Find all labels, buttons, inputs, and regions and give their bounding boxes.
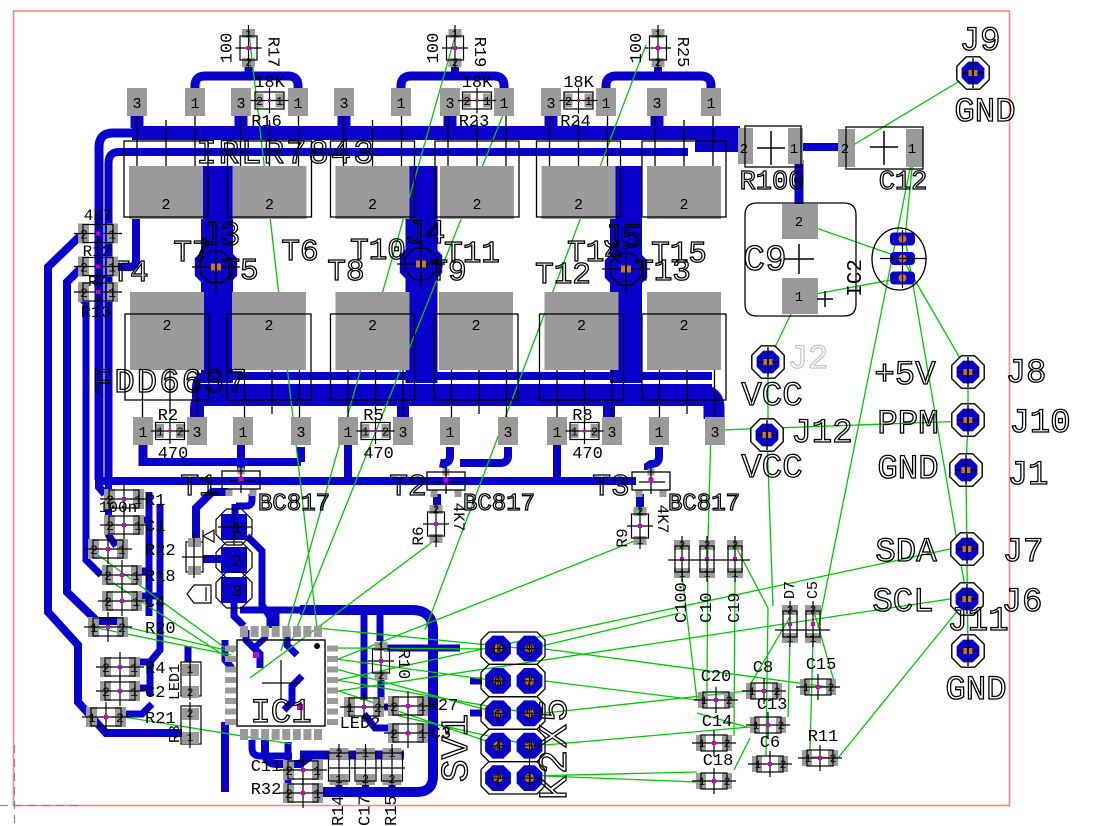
svg-text:C2: C2	[145, 684, 165, 703]
svg-text:1: 1	[346, 701, 354, 716]
resistor R25 (100)	[645, 25, 671, 71]
svg-text:1: 1	[654, 425, 663, 442]
svg-text:PPM: PPM	[877, 406, 938, 444]
wire: stub pad3@301 down	[297, 447, 305, 462]
svg-text:2: 2	[787, 606, 794, 618]
svg-text:1: 1	[130, 661, 138, 676]
svg-text:3: 3	[652, 96, 661, 113]
component R18	[98, 560, 146, 590]
svg-text:R15: R15	[383, 795, 402, 826]
wire: cornerB tail to R22	[109, 480, 117, 546]
svg-text:6: 6	[494, 707, 502, 723]
svg-text:18K: 18K	[254, 74, 285, 93]
transistor tab/outline row2 #3	[331, 292, 415, 400]
wire: R100 to C12	[800, 143, 840, 151]
svg-text:R11: R11	[808, 728, 839, 747]
svg-text:3: 3	[503, 425, 512, 442]
svg-text:1: 1	[293, 96, 302, 113]
svg-text:2: 2	[80, 228, 88, 243]
svg-text:LED1: LED1	[167, 664, 184, 700]
wire: stub pad1@450 to T2	[443, 447, 450, 468]
labels R2 / 470	[158, 407, 189, 464]
wire: R100 pad1 down to C9	[795, 160, 804, 206]
svg-text:4K7: 4K7	[84, 207, 113, 225]
svg-text:2: 2	[335, 747, 342, 761]
resistor R9 (4K7)	[627, 503, 653, 549]
svg-text:2: 2	[102, 661, 110, 676]
wire: left diag 2	[67, 269, 126, 621]
transistor tab/outline row2 #5	[540, 292, 624, 400]
svg-text:18K: 18K	[563, 74, 594, 93]
component R1	[100, 484, 148, 514]
svg-text:1: 1	[699, 777, 706, 789]
svg-text:2: 2	[161, 197, 170, 214]
svg-text:1: 1	[552, 425, 561, 442]
svg-text:1: 1	[795, 290, 803, 306]
svg-text:R24: R24	[560, 113, 591, 132]
wire: stub pad1@659 elbow	[648, 447, 659, 470]
svg-text:1: 1	[132, 595, 140, 610]
svg-text:5: 5	[525, 707, 533, 723]
svg-text:2: 2	[740, 142, 748, 158]
svg-text:J12: J12	[791, 415, 852, 453]
svg-text:2: 2	[264, 318, 273, 335]
resistor R7b	[74, 252, 122, 282]
IC IC1	[225, 626, 338, 740]
svg-text:1: 1	[245, 29, 252, 41]
svg-text:2: 2	[463, 95, 470, 109]
svg-text:J7: J7	[1003, 534, 1044, 572]
via J8	[952, 356, 984, 388]
wire: stub pad3@508 down-left	[460, 447, 508, 463]
svg-text:IC2: IC2	[845, 259, 868, 297]
svg-text:SV1: SV1	[436, 714, 479, 782]
transistor tab/outline row2 #2	[227, 292, 311, 400]
wire: big loop right of IC1	[300, 610, 433, 792]
svg-text:10: 10	[490, 643, 507, 659]
svg-text:2: 2	[810, 606, 817, 618]
svg-text:100: 100	[425, 33, 444, 64]
svg-text:2: 2	[256, 95, 263, 109]
svg-text:3: 3	[236, 96, 245, 113]
svg-text:2: 2	[104, 595, 112, 610]
wire: gate stub into tab1	[118, 219, 136, 267]
svg-text:J1: J1	[1008, 457, 1049, 495]
via J10	[952, 404, 984, 436]
svg-text:2: 2	[655, 58, 662, 70]
resistor R27	[384, 691, 432, 721]
svg-text:2: 2	[116, 711, 124, 726]
svg-text:1: 1	[908, 142, 916, 158]
transistor tab/outline row1 #2	[228, 141, 312, 219]
svg-text:1: 1	[132, 569, 140, 584]
svg-text:3: 3	[296, 425, 305, 442]
transistor bottom pin pads	[133, 417, 153, 445]
svg-text:1: 1	[787, 634, 794, 646]
component C13	[746, 712, 790, 738]
svg-text:R10: R10	[393, 649, 412, 680]
svg-text:1: 1	[749, 687, 756, 699]
svg-text:C8: C8	[753, 659, 773, 678]
svg-text:J4: J4	[405, 216, 446, 254]
svg-text:3: 3	[339, 96, 348, 113]
svg-text:1: 1	[418, 727, 426, 742]
svg-text:1: 1	[805, 754, 812, 766]
LED LED1	[181, 658, 201, 700]
connector SV1 (K2X5)	[481, 632, 545, 794]
svg-text:2: 2	[472, 197, 481, 214]
svg-text:1: 1	[378, 642, 385, 654]
capacitor C100	[674, 536, 690, 582]
svg-text:C4: C4	[145, 594, 165, 613]
wire: IC1 top horizontal	[240, 607, 360, 614]
capacitor C11	[279, 755, 327, 785]
component C8	[742, 678, 786, 704]
svg-text:2: 2	[80, 261, 88, 276]
svg-text:GND: GND	[945, 672, 1006, 710]
svg-text:1: 1	[130, 685, 138, 700]
svg-text:1: 1	[134, 519, 142, 534]
svg-text:4K7: 4K7	[449, 503, 467, 532]
crossline D7 C5	[775, 629, 830, 631]
capacitor C12	[838, 127, 923, 169]
labels R5 / 470	[363, 407, 394, 464]
svg-text:2: 2	[565, 95, 572, 109]
wire: IC1 bottom S traces	[252, 740, 292, 756]
svg-text:2: 2	[102, 685, 110, 700]
svg-text:GND: GND	[954, 94, 1015, 132]
transistor tab/outline row1 #4	[435, 141, 519, 219]
transistor T2 (BC817)	[427, 468, 465, 497]
component R14	[329, 744, 350, 790]
svg-text:3: 3	[192, 425, 201, 442]
svg-text:1: 1	[108, 228, 116, 243]
via J1	[950, 454, 982, 486]
svg-text:2: 2	[104, 569, 112, 584]
wire: header stubs	[470, 678, 482, 685]
via J6	[951, 583, 983, 615]
svg-text:VCC: VCC	[741, 450, 802, 488]
svg-text:1: 1	[343, 425, 352, 442]
svg-text:T5: T5	[221, 254, 258, 289]
wire: R10 top link	[384, 645, 460, 652]
svg-text:1: 1	[313, 787, 321, 802]
svg-text:1: 1	[418, 700, 426, 715]
wire: pad3 stub to IC1	[234, 602, 244, 626]
svg-text:2: 2	[726, 696, 733, 708]
svg-text:2: 2	[285, 764, 293, 779]
svg-text:LED2: LED2	[340, 715, 381, 734]
wire: resistor feed stub	[654, 62, 662, 78]
svg-text:T15: T15	[651, 237, 707, 272]
component C4	[98, 586, 146, 616]
svg-text:470: 470	[158, 445, 189, 464]
capacitor C3	[384, 718, 432, 748]
svg-text:2: 2	[828, 683, 835, 695]
svg-text:1: 1	[190, 96, 199, 113]
svg-text:2: 2	[433, 505, 440, 517]
wire: R10 bottom to LED2	[378, 676, 385, 700]
component C20	[694, 687, 738, 713]
svg-text:T2: T2	[389, 470, 426, 505]
svg-text:T7: T7	[173, 236, 210, 271]
resistor R10	[368, 638, 394, 684]
svg-text:1: 1	[601, 96, 610, 113]
svg-text:2: 2	[362, 773, 369, 787]
transistor tab/outline row2 #1	[125, 292, 209, 400]
svg-text:1: 1	[483, 95, 490, 109]
svg-text:C14: C14	[702, 713, 733, 732]
svg-text:1: 1	[452, 29, 459, 41]
svg-text:T12: T12	[535, 258, 591, 293]
component R22	[84, 534, 132, 564]
svg-text:R9: R9	[614, 528, 632, 547]
via J3	[192, 243, 240, 291]
svg-text:2: 2	[382, 426, 389, 440]
svg-text:C17: C17	[357, 795, 376, 826]
svg-text:K2X5: K2X5	[534, 696, 579, 800]
resistor R2 (470)	[151, 418, 189, 444]
svg-text:C18: C18	[703, 752, 734, 771]
transistor tab/outline row1 #5	[537, 141, 621, 219]
svg-text:T1: T1	[180, 470, 217, 505]
svg-text:R3: R3	[167, 725, 184, 743]
svg-text:2: 2	[452, 58, 459, 70]
via J4	[397, 240, 445, 288]
svg-text:R5: R5	[363, 407, 383, 426]
svg-text:2: 2	[378, 671, 385, 683]
svg-text:2: 2	[577, 318, 586, 335]
svg-text:1: 1	[118, 543, 126, 558]
transistor tab/outline row1 #3	[331, 141, 415, 219]
component R15	[382, 744, 403, 790]
wire: drain stub to bus	[444, 110, 457, 128]
crossline C100 row	[668, 559, 750, 561]
pin lines row1	[137, 116, 713, 166]
wire: T3 base stub to R9	[636, 494, 644, 508]
component R4	[96, 652, 144, 682]
via J12	[751, 419, 783, 451]
svg-text:D7: D7	[782, 581, 799, 599]
svg-text:C11: C11	[251, 758, 282, 777]
component R20	[84, 612, 132, 642]
wire: drain stub to bus	[338, 110, 351, 128]
wire: center source column	[610, 166, 642, 383]
svg-text:1: 1	[362, 426, 369, 440]
svg-text:2: 2	[704, 541, 711, 553]
labels R8 / 470	[572, 407, 603, 464]
svg-text:C19: C19	[726, 592, 745, 623]
capacitor C5	[805, 601, 821, 647]
svg-text:FDD6637: FDD6637	[92, 365, 249, 403]
svg-text:R32: R32	[251, 781, 282, 800]
svg-text:4K7: 4K7	[653, 505, 671, 534]
svg-text:J9: J9	[960, 23, 1001, 61]
component C2	[96, 676, 144, 706]
airwires (ratsnest)	[90, 33, 973, 782]
svg-text:1: 1	[445, 425, 454, 442]
wire: stub pad1@143 down	[139, 444, 148, 466]
svg-text:9: 9	[525, 643, 533, 659]
svg-text:C9: C9	[743, 240, 786, 281]
svg-text:100n: 100n	[99, 499, 137, 517]
wire: drain stub to bus	[545, 110, 558, 128]
svg-text:8: 8	[494, 675, 502, 691]
component R3	[181, 702, 201, 748]
wire: lower bus right elbow into pad	[700, 395, 714, 419]
label 18K / R24	[560, 74, 594, 132]
resistor R23 (18K)	[458, 88, 496, 114]
svg-text:BC817: BC817	[258, 491, 330, 518]
transistor tab/outline row1 #1	[124, 141, 208, 219]
svg-text:R23: R23	[459, 113, 490, 132]
svg-text:J2: J2	[788, 341, 829, 379]
svg-text:2: 2	[494, 772, 502, 788]
svg-text:J11: J11	[947, 603, 1008, 641]
svg-text:1: 1	[108, 286, 116, 301]
svg-text:C15: C15	[806, 656, 837, 675]
transistor tab/outline row2 #4	[434, 292, 518, 400]
svg-text:2: 2	[106, 519, 114, 534]
svg-text:SCL: SCL	[872, 584, 933, 622]
svg-text:2: 2	[368, 318, 377, 335]
wire: stub pad1@243 to T1	[237, 444, 245, 468]
wire: stub 1@348 down	[344, 445, 352, 481]
component C1	[100, 510, 148, 540]
svg-text:1: 1	[755, 760, 762, 772]
svg-text:7: 7	[525, 675, 533, 691]
wire: gate arc trace	[195, 76, 298, 97]
svg-text:BC817: BC817	[463, 491, 535, 518]
svg-text:T8: T8	[327, 255, 364, 290]
pin lines row2	[143, 370, 715, 417]
svg-text:1: 1	[396, 96, 405, 113]
svg-text:R27: R27	[428, 697, 459, 716]
svg-text:1: 1	[138, 425, 147, 442]
svg-text:R22: R22	[145, 542, 176, 561]
svg-text:470: 470	[363, 445, 394, 464]
wire: LED column vertical	[185, 646, 192, 662]
svg-text:2: 2	[232, 553, 242, 572]
capacitor C9	[745, 203, 856, 316]
svg-text:R12: R12	[83, 243, 112, 261]
svg-text:T6: T6	[281, 235, 318, 270]
svg-text:1: 1	[88, 711, 96, 726]
svg-text:1: 1	[803, 683, 810, 695]
svg-text:GND: GND	[877, 451, 938, 489]
component C17	[355, 744, 376, 790]
labels 4K7 R12 R13	[81, 207, 113, 323]
label 18K / R23	[459, 74, 493, 132]
resistor R13	[74, 277, 122, 307]
svg-text:1: 1	[753, 721, 760, 733]
svg-text:1: 1	[655, 29, 662, 41]
transistor top pin pads	[127, 88, 147, 116]
svg-text:IRLR7843: IRLR7843	[196, 136, 375, 174]
svg-text:3: 3	[132, 96, 141, 113]
svg-text:1: 1	[637, 536, 644, 548]
svg-text:T11: T11	[444, 237, 500, 272]
IC IC2	[872, 228, 927, 290]
wire: traces inside IC1	[246, 630, 260, 668]
svg-text:2: 2	[390, 700, 398, 715]
component C15	[796, 674, 840, 700]
svg-text:2: 2	[285, 787, 293, 802]
svg-text:1: 1	[701, 696, 708, 708]
svg-text:SDA: SDA	[875, 534, 937, 572]
transistor tab/outline row2 #6	[642, 292, 726, 400]
svg-text:1: 1	[238, 425, 247, 442]
wire: IC1 left vertical	[221, 722, 229, 792]
svg-text:1: 1	[108, 261, 116, 276]
svg-text:2: 2	[679, 318, 688, 335]
wire: stubs 3a pads up to bus	[191, 406, 203, 418]
component C18	[692, 768, 736, 794]
resistor R24 (18K)	[560, 88, 598, 114]
svg-text:2: 2	[679, 541, 686, 553]
svg-text:2: 2	[176, 426, 183, 440]
svg-text:2: 2	[574, 197, 583, 214]
origin crosshair	[14, 745, 16, 826]
svg-text:2: 2	[368, 197, 377, 214]
svg-text:C5: C5	[805, 581, 822, 599]
svg-text:2: 2	[724, 777, 731, 789]
wire: top bus left corner	[99, 133, 150, 480]
svg-text:100: 100	[219, 33, 238, 64]
wire: gate arc trace	[401, 76, 504, 97]
wire: resistor feed stub	[451, 62, 459, 78]
resistor R16 (18K)	[251, 88, 289, 114]
svg-text:R8: R8	[572, 407, 592, 426]
wire: T2 base stub to R6	[433, 494, 441, 508]
wire: R21 link	[124, 704, 152, 714]
wire: left diag from R12	[48, 236, 182, 733]
svg-text:R1: R1	[145, 492, 165, 511]
wire: left diag 3	[80, 297, 101, 575]
svg-text:1: 1	[276, 95, 283, 109]
resistor R6 (4K7)	[423, 501, 449, 547]
wire: cornerA tail to R1	[99, 480, 105, 494]
resistor R12 (4K7)	[74, 219, 122, 249]
wire: column elbows	[137, 517, 150, 524]
svg-text:J8: J8	[1006, 355, 1047, 393]
wire: stub 1@557 down	[553, 445, 561, 481]
component C14	[692, 730, 736, 756]
wire: gate arc trace	[606, 76, 711, 97]
labels for R25	[628, 33, 691, 68]
capacitor D7	[782, 601, 798, 647]
wire: rail under R14/C17/R15	[300, 751, 404, 760]
wire: center source column	[406, 166, 438, 383]
resistor R100	[738, 126, 803, 167]
wire: bottom rail stubs	[336, 782, 343, 792]
transistor T1 (BC817)	[222, 467, 260, 496]
wire: pad2 link left	[203, 555, 221, 563]
svg-text:1: 1	[810, 634, 817, 646]
svg-text:T3: T3	[592, 470, 629, 505]
svg-text:R18: R18	[145, 568, 176, 587]
svg-text:2: 2	[162, 318, 171, 335]
svg-text:R25: R25	[672, 37, 691, 68]
svg-text:100: 100	[628, 33, 647, 64]
wire: drain stub to bus	[131, 110, 144, 128]
svg-text:3: 3	[710, 425, 719, 442]
wire: thin trace under top bus	[109, 152, 689, 480]
label 18K / R16	[251, 74, 285, 132]
wire: LED2-R27 link	[378, 704, 395, 711]
wire: C11 links	[285, 742, 292, 788]
svg-text:R100: R100	[740, 168, 805, 198]
